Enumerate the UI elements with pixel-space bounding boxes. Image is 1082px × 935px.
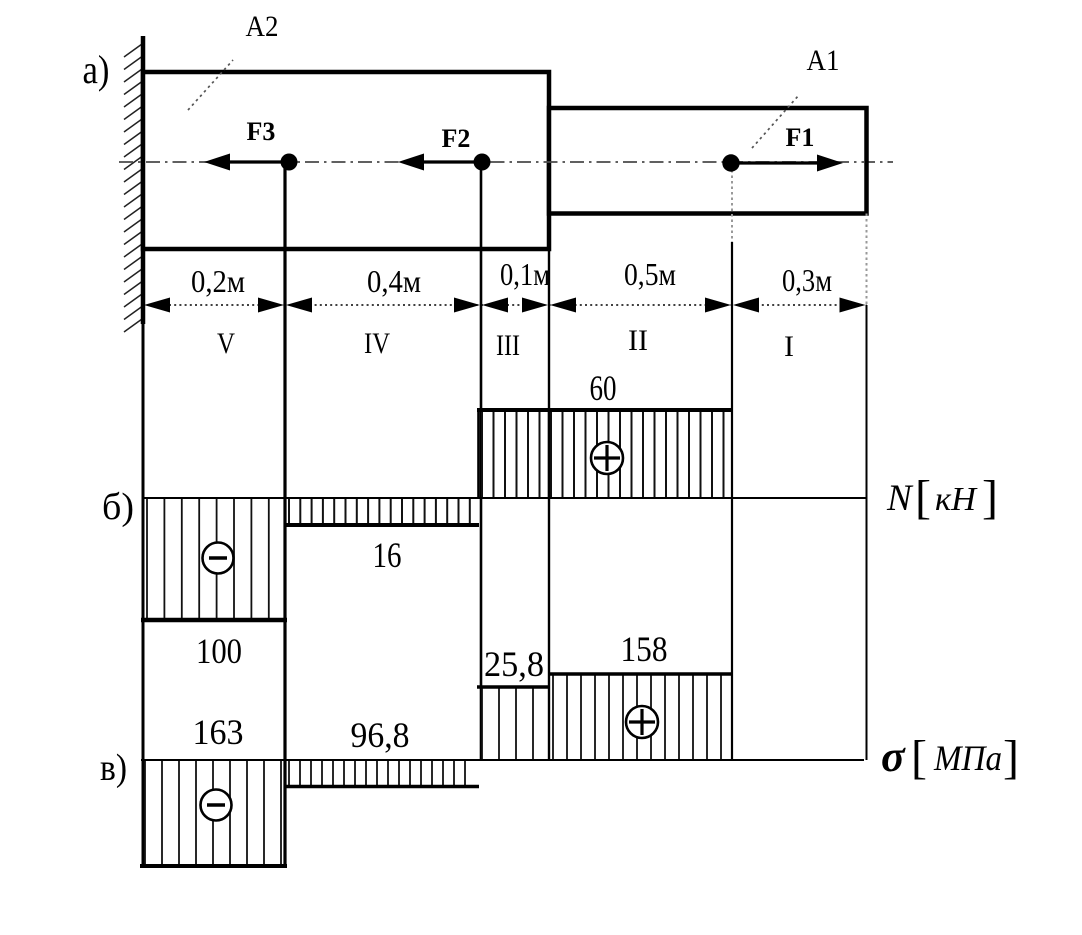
- svg-text:[: [: [915, 471, 931, 524]
- svg-text:60: 60: [590, 368, 617, 408]
- svg-text:σ: σ: [881, 732, 906, 781]
- svg-text:0,2м: 0,2м: [191, 263, 245, 299]
- svg-text:А2: А2: [246, 10, 279, 43]
- svg-text:]: ]: [982, 471, 998, 524]
- svg-text:МПа: МПа: [933, 738, 1002, 778]
- svg-text:III: III: [496, 329, 520, 362]
- svg-text:F3: F3: [247, 117, 276, 146]
- svg-text:16: 16: [373, 535, 402, 575]
- svg-text:0,3м: 0,3м: [782, 262, 832, 298]
- svg-text:0,1м: 0,1м: [500, 256, 550, 292]
- svg-text:]: ]: [1003, 731, 1019, 784]
- svg-text:в): в): [100, 747, 127, 789]
- svg-text:[: [: [911, 731, 927, 784]
- svg-text:N: N: [886, 478, 914, 519]
- svg-text:А1: А1: [807, 44, 840, 77]
- svg-text:б): б): [102, 486, 134, 528]
- svg-text:163: 163: [193, 712, 244, 752]
- svg-text:100: 100: [196, 631, 242, 671]
- svg-text:158: 158: [621, 629, 668, 669]
- svg-text:25,8: 25,8: [484, 644, 544, 684]
- svg-text:0,4м: 0,4м: [367, 263, 421, 299]
- svg-text:V: V: [217, 327, 235, 360]
- svg-text:96,8: 96,8: [351, 715, 410, 755]
- svg-text:I: I: [784, 330, 794, 363]
- svg-text:F2: F2: [442, 124, 471, 153]
- svg-text:0,5м: 0,5м: [624, 256, 676, 292]
- svg-text:а): а): [83, 47, 110, 92]
- svg-text:IV: IV: [364, 327, 390, 360]
- svg-text:F1: F1: [786, 123, 815, 152]
- svg-text:кН: кН: [935, 481, 978, 518]
- svg-text:II: II: [628, 324, 648, 357]
